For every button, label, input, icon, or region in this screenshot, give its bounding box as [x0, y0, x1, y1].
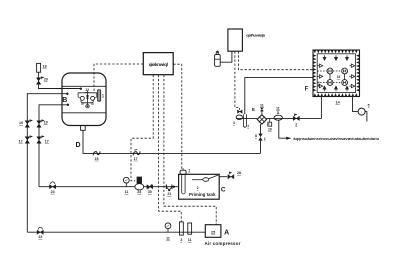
svg-text:21: 21 — [167, 192, 171, 196]
svg-text:17: 17 — [134, 157, 138, 161]
moisture trap 4 — [236, 115, 242, 120]
level pot 1 on tank C — [180, 170, 186, 174]
control box — [143, 53, 173, 75]
valve 19 left — [25, 121, 29, 128]
level assembly float right — [91, 96, 95, 100]
solenoid valve 24 — [137, 177, 142, 183]
svg-text:F: F — [305, 86, 309, 92]
sample bottle 6 — [215, 55, 221, 67]
signal wire datalogger to chamber F — [238, 51, 313, 69]
level assembly bottom weight — [86, 105, 89, 108]
signal wire datalogger to trap 4 — [235, 51, 240, 110]
check valve 21 — [165, 185, 167, 190]
node probe c — [67, 104, 69, 106]
svg-text:17: 17 — [19, 140, 23, 144]
blower 5 circle — [358, 108, 365, 115]
wire dryer feed to chamber F — [245, 78, 313, 115]
valve 23 — [50, 185, 56, 189]
svg-text:7: 7 — [247, 125, 249, 129]
level assembly float left — [80, 96, 84, 100]
float switch arm — [192, 179, 203, 181]
thermowell 7 — [243, 114, 246, 127]
signal wire control to solenoid valve 24 — [131, 75, 153, 181]
valve 22 — [37, 230, 43, 234]
valve 2 dryer — [293, 116, 299, 120]
valve 17 drain — [133, 151, 140, 155]
wire tank C vent — [219, 176, 227, 178]
svg-text:20: 20 — [44, 77, 48, 81]
valve 20 — [38, 72, 40, 77]
sight glass 1 — [98, 90, 101, 101]
svg-text:B: B — [62, 97, 67, 104]
svg-text:5: 5 — [368, 103, 370, 107]
heaters H in chamber F — [327, 68, 333, 74]
filter 3 — [180, 222, 184, 235]
tank B bottom nozzle — [81, 126, 86, 131]
svg-text:Air compressor: Air compressor — [204, 241, 240, 246]
svg-text:1: 1 — [188, 168, 190, 172]
svg-text:1: 1 — [102, 94, 104, 98]
valve 17 right — [37, 137, 41, 144]
signal wire control to priming tank sensor — [173, 64, 182, 169]
svg-text:C: C — [221, 186, 226, 193]
chamber F outer wall — [313, 50, 360, 97]
svg-text:2: 2 — [295, 122, 297, 126]
svg-text:22: 22 — [38, 235, 42, 239]
svg-text:25: 25 — [211, 230, 215, 234]
svg-text:E: E — [252, 107, 255, 112]
svg-text:2: 2 — [197, 186, 199, 190]
wire column 1 top to tank B — [27, 94, 67, 233]
svg-text:30: 30 — [148, 190, 152, 194]
svg-text:A: A — [224, 230, 229, 237]
priming tank C shell — [179, 174, 220, 199]
svg-text:24: 24 — [137, 190, 141, 194]
wire column 2 top to tank B — [39, 105, 68, 187]
valve 28 — [228, 175, 234, 179]
svg-text:19: 19 — [44, 120, 48, 124]
svg-text:ăqqnsuãønnsrinvnuvøvinsøvøviud: ăqqnsuãønnsrinvnuvøvinsøvøviudauãeňdariu — [293, 136, 379, 141]
svg-text:11: 11 — [188, 238, 192, 242]
svg-text:qiøknwiql: qiøknwiql — [149, 62, 168, 67]
svg-text:4: 4 — [233, 121, 235, 125]
valve 8 — [258, 134, 262, 141]
valve 30 — [147, 185, 153, 189]
chamber F internal wiring — [317, 70, 327, 72]
drain pot 10 — [269, 118, 271, 122]
signal wire control to air compressor — [164, 75, 216, 225]
pressure gauge 11 bottom — [165, 223, 171, 229]
wire main dryer pipe — [236, 117, 257, 119]
data logger box — [228, 29, 243, 51]
pump 11 ellipse — [274, 115, 282, 120]
svg-text:28: 28 — [237, 171, 241, 175]
chamber F inner wall — [317, 54, 355, 93]
wire tank B drain D — [83, 130, 261, 153]
tank B upper seam — [62, 85, 106, 87]
svg-text:17: 17 — [45, 140, 49, 144]
wire to chamber F bottom — [320, 97, 322, 119]
svg-text:11: 11 — [166, 236, 170, 240]
wire chamber F to blower — [353, 97, 359, 112]
signal wire control to tank B sensor — [94, 64, 143, 92]
filter 11 — [188, 223, 192, 234]
tank B lower seam — [62, 112, 106, 114]
wire riser to manifold E — [260, 141, 262, 154]
tank B shell — [62, 73, 106, 126]
fuse/filter 18 (vent silencer) — [37, 63, 41, 72]
svg-text:11: 11 — [276, 106, 280, 110]
wire blower exhaust — [365, 112, 367, 122]
node probe a — [80, 88, 82, 90]
wire valve8 to manifold — [260, 124, 262, 134]
level assembly 12 frame — [78, 92, 97, 94]
valve 19 right — [37, 121, 41, 128]
wire bottom pipe — [27, 231, 205, 233]
alarm arrow — [286, 137, 291, 140]
svg-text:18: 18 — [43, 65, 47, 69]
node probe b — [66, 93, 68, 95]
signal wire control to filter 3 — [159, 75, 182, 222]
svg-text:19: 19 — [19, 121, 23, 125]
signal wire alarm — [279, 120, 286, 138]
svg-text:D: D — [75, 142, 80, 149]
union 15 — [93, 151, 100, 155]
chamber F flow arrows — [323, 57, 349, 89]
svg-text:3: 3 — [180, 238, 182, 242]
svg-text:1: 1 — [264, 137, 266, 141]
wire bottle to data logger — [220, 51, 232, 62]
svg-text:11: 11 — [125, 190, 129, 194]
svg-text:15: 15 — [95, 157, 99, 161]
wire valve20 to tank B probe line — [39, 84, 81, 88]
chamber F insulation arrows — [313, 50, 359, 96]
svg-text:Priming tank: Priming tank — [189, 192, 216, 197]
wire mid pipe — [39, 186, 179, 188]
pressure gauge 11 mid — [123, 177, 129, 183]
svg-text:8: 8 — [255, 134, 257, 138]
manifold E diamond — [257, 115, 266, 124]
node junction before tank C — [173, 186, 175, 188]
air compressor A box — [205, 225, 221, 238]
svg-text:15: 15 — [337, 75, 341, 79]
valve 17 left — [25, 137, 29, 144]
svg-text:qøiñuvøuja: qøiñuvøuja — [246, 33, 265, 38]
level assembly stem — [87, 91, 89, 104]
svg-text:11: 11 — [260, 104, 264, 108]
dip tube in tank C — [182, 174, 185, 194]
svg-text:23: 23 — [51, 190, 55, 194]
svg-text:10: 10 — [268, 128, 272, 132]
